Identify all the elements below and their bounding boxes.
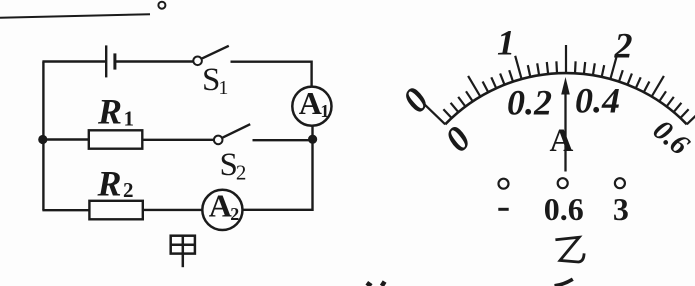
svg-text:0: 0 <box>395 80 437 120</box>
wire (R2 to bottom-left corner) <box>42 209 89 211</box>
meter needle arrowhead <box>561 77 570 95</box>
node (junction dot, right middle) <box>308 135 317 144</box>
battery (cell, long positive plate) <box>105 45 107 77</box>
cropped text fragment (next line, left piece) <box>367 282 385 286</box>
svg-text:1: 1 <box>497 23 515 63</box>
svg-text:R1: R1 <box>97 92 134 132</box>
ammeter A1 circle <box>292 87 331 126</box>
wire (R1 to switch S2) <box>142 139 214 141</box>
terminal (negative binding post circle) <box>499 179 509 189</box>
wire (top, battery left lead) <box>42 60 106 62</box>
terminal (3 A binding post circle) <box>615 178 625 188</box>
battery (cell, short negative plate) <box>113 53 116 69</box>
wire (S2 to right junction) <box>253 139 313 141</box>
terminal (cropped switch contact, open circle) <box>158 2 165 9</box>
node (junction dot, left middle) <box>38 135 47 144</box>
svg-text:0.6: 0.6 <box>544 191 584 227</box>
svg-text:0.2: 0.2 <box>507 83 552 123</box>
svg-text:2: 2 <box>614 26 633 66</box>
label minus sign of negative terminal <box>498 208 508 211</box>
wire (A2 to resistor R2) <box>143 209 203 211</box>
svg-text:R2: R2 <box>97 164 134 204</box>
switch S2 terminal circle <box>214 136 223 145</box>
switch S1 lever blade <box>202 46 229 59</box>
label 乙 (figure yǐ) drawn strokes <box>557 237 584 262</box>
svg-text:S1: S1 <box>202 62 228 99</box>
svg-text:A: A <box>549 123 573 159</box>
svg-text:0: 0 <box>437 119 479 159</box>
wire (cropped figure above, lead-in line) <box>0 14 150 18</box>
wire (left vertical of circuit 甲) <box>42 62 44 211</box>
cropped text fragment (below 乙) <box>555 279 573 286</box>
wire (A1 bottom to junction) <box>311 126 313 142</box>
meter needle shaft <box>564 90 566 172</box>
resistor R2 box <box>89 201 142 220</box>
terminal (0.6 A binding post circle) <box>558 178 568 188</box>
svg-text:3: 3 <box>613 191 629 227</box>
meter tick marks (30 divisions) <box>424 45 695 124</box>
switch S2 lever blade <box>222 124 250 138</box>
meter scale arc <box>445 73 687 124</box>
wire (right vertical, junction down to bottom corner) <box>243 139 313 210</box>
wire (battery to switch S1) <box>115 60 193 62</box>
wire (left junction to resistor R1) <box>43 138 89 140</box>
resistor R1 box <box>89 130 143 148</box>
switch S1 terminal circle <box>193 57 202 66</box>
svg-text:0.6: 0.6 <box>647 114 695 162</box>
svg-text:S2: S2 <box>220 147 247 185</box>
wire (S1 to top-right corner and down to ammeter A1) <box>231 62 312 87</box>
label 甲 (figure jiǎ) drawn strokes <box>171 236 195 268</box>
svg-text:0.4: 0.4 <box>575 81 620 121</box>
ammeter A2 circle <box>202 190 242 230</box>
